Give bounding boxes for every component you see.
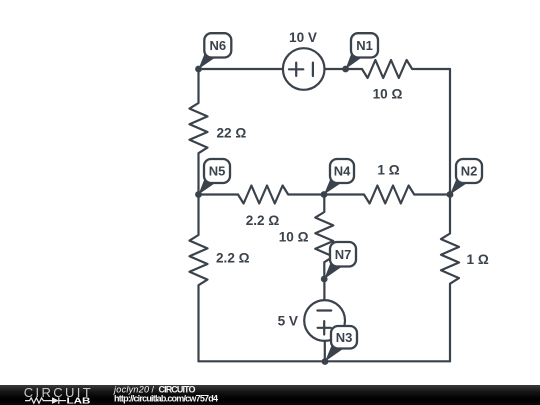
wire: bottom horizontal [199, 360, 451, 362]
value label 10 ohm (R5) [279, 230, 309, 245]
wire: V1 positive terminal to N1 [325, 68, 347, 70]
wire: V2 bottom to N3 [324, 341, 326, 361]
node N5 [195, 159, 230, 198]
value label 5 V [278, 314, 298, 329]
svg-text:10 Ω: 10 Ω [373, 87, 403, 102]
svg-text:LAB: LAB [67, 397, 91, 405]
node N6 [195, 33, 231, 72]
resistor R3 2.2 ohm (N5 to N4) [199, 186, 325, 204]
node N7 [321, 242, 356, 282]
svg-text:5 V: 5 V [278, 314, 298, 329]
svg-text:N5: N5 [209, 164, 226, 179]
svg-text:22 Ω: 22 Ω [217, 126, 247, 141]
resistor R6 2.2 ohm (N5 to bottom-left, left vertical) [190, 195, 208, 362]
svg-text:http://circuitlab.com/cw757d4: http://circuitlab.com/cw757d4 [114, 394, 218, 404]
voltage source V1 10 V [283, 48, 325, 90]
wire: N7 to V2 top [323, 279, 325, 300]
resistor R2 22 ohm (N6 to N5, left vertical) [190, 69, 208, 195]
value label 2.2 ohm (R6) [216, 251, 250, 266]
resistor R5 10 ohm (N4 to N7, middle vertical) [315, 195, 333, 280]
value label 10 ohm (R1) [373, 87, 403, 102]
footer logo CIRCUIT [24, 385, 91, 400]
wire: top-left horizontal N6 to V1 [199, 68, 284, 70]
value label 10 V [289, 30, 317, 45]
value label 2.2 ohm (R3) [246, 213, 280, 228]
svg-text:10 V: 10 V [289, 30, 317, 45]
footer logo resistor-diode symbol [25, 397, 66, 404]
svg-text:2.2 Ω: 2.2 Ω [246, 213, 280, 228]
resistor R4 1 ohm (N4 to N2) [324, 186, 450, 204]
footer text: joclyn20 / CIRCUITO [113, 385, 196, 395]
svg-text:10 Ω: 10 Ω [279, 230, 309, 245]
value label 22 ohm (R2) [217, 126, 247, 141]
svg-text:N2: N2 [461, 164, 478, 179]
node N2 [447, 159, 482, 198]
svg-text:N6: N6 [209, 38, 226, 53]
svg-text:1 Ω: 1 Ω [377, 163, 399, 178]
footer logo LAB [67, 397, 91, 405]
value label 1 ohm (R7) [467, 252, 489, 267]
svg-text:N7: N7 [335, 247, 352, 262]
svg-text:2.2 Ω: 2.2 Ω [216, 251, 250, 266]
svg-text:N4: N4 [334, 164, 351, 179]
voltage source V2 5 V [304, 300, 345, 341]
resistor R1 10 ohm (N1 to top-right corner) [346, 60, 450, 78]
wire: right vertical (top-right corner to N2) [449, 69, 451, 196]
footer bar [0, 385, 540, 405]
svg-text:N1: N1 [356, 38, 373, 53]
resistor R7 1 ohm (N2 to bottom-right, right vertical) [441, 195, 459, 362]
svg-text:N3: N3 [336, 330, 353, 345]
svg-text:1 Ω: 1 Ω [467, 252, 489, 267]
node N4 [321, 159, 354, 198]
footer text: http://circuitlab.com/cw757d4 [114, 394, 218, 404]
node N3 [322, 326, 357, 365]
node N1 [342, 33, 378, 72]
value label 1 ohm (R4) [377, 163, 399, 178]
